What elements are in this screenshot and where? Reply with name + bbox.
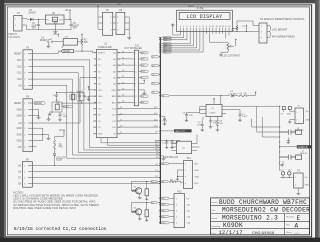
wire P6 pin4 D2 to U1 xyxy=(32,78,96,124)
svg-text:LCD DISPLAY: LCD DISPLAY xyxy=(187,14,223,20)
+5V at U1 VCC pin xyxy=(88,86,97,90)
svg-text:D9: D9 xyxy=(162,198,164,200)
wires P3 pin1 to RESET net xyxy=(32,51,61,53)
svg-text:ROUTROL SEE USER GUIDE FOR DET: ROUTROL SEE USER GUIDE FOR DETAIL INFO xyxy=(13,206,76,210)
svg-text:D13: D13 xyxy=(162,222,165,224)
svg-text:1N4007: 1N4007 xyxy=(28,13,37,15)
capacitor C11 xyxy=(197,117,204,132)
title block xyxy=(211,198,310,235)
wire bus fan P3 to lower data bus xyxy=(32,60,160,159)
+5V at P12 pin6 xyxy=(139,79,146,83)
diode D1 xyxy=(27,10,37,21)
svg-text:BLUE: BLUE xyxy=(56,160,62,162)
LED D5 at Q2 xyxy=(145,202,149,221)
wire bus to P10 pin1 xyxy=(159,162,183,165)
title block row source xyxy=(211,199,307,206)
svg-text:GND: GND xyxy=(17,134,22,136)
wires audio bus to tone decoder xyxy=(252,106,280,137)
svg-text:.47UF: .47UF xyxy=(197,124,203,126)
svg-text:DB7: DB7 xyxy=(141,52,144,54)
capacitor C5 xyxy=(70,19,80,29)
ground near P6 row xyxy=(46,116,51,121)
svg-text:RESET: RESET xyxy=(63,51,71,53)
ground P6 pins 5,6,7 xyxy=(32,128,50,140)
svg-text:25V: 25V xyxy=(32,28,37,30)
LCD data fan wires to bus xyxy=(159,34,203,53)
svg-text:4 LINE: 4 LINE xyxy=(197,8,204,10)
LCD pin stubs xyxy=(180,26,232,34)
resistor R8 backlight xyxy=(231,25,238,33)
title block row board xyxy=(211,215,300,222)
svg-text:+5V: +5V xyxy=(59,130,64,132)
wires P9 pins to data bus xyxy=(32,164,160,184)
svg-text:25V: 25V xyxy=(73,28,78,30)
svg-text:Drawn By:: Drawn By: xyxy=(211,226,221,228)
svg-text:D3: D3 xyxy=(152,92,154,94)
svg-text:LINE OUT: LINE OUT xyxy=(175,131,186,133)
svg-text:D7: D7 xyxy=(162,181,164,183)
test point square GND xyxy=(287,107,295,116)
svg-text:D4: D4 xyxy=(152,83,154,85)
svg-text:ATMEGA 328: ATMEGA 328 xyxy=(98,46,112,49)
+5V arrow feeding R5 xyxy=(32,129,65,146)
main vertical bus wire xyxy=(159,37,161,224)
ground at P12 pin7 xyxy=(139,90,147,95)
ground J1 xyxy=(287,141,291,144)
ground rail under regulator xyxy=(39,24,72,33)
svg-text:GND: GND xyxy=(17,141,22,143)
ground at U1 GND pin xyxy=(87,96,97,101)
test point square 5V xyxy=(281,107,286,116)
net flag RESET at P6 xyxy=(32,102,45,106)
svg-text:D5: D5 xyxy=(152,74,154,76)
svg-text:Board:: Board: xyxy=(211,218,217,220)
net flags P12 pins 8,9 xyxy=(139,95,149,104)
capacitor C15 xyxy=(170,141,178,149)
svg-text:D5: D5 xyxy=(152,202,154,204)
svg-text:DB6: DB6 xyxy=(164,39,167,41)
wire bus to Q1 xyxy=(131,180,160,190)
LED D4 at Q1 xyxy=(145,181,149,200)
ground J2 xyxy=(280,162,284,166)
svg-text:Revision: Revision xyxy=(286,217,294,219)
connector P5 xyxy=(98,9,113,35)
jumper bracket MAX BRIGHTNESS xyxy=(270,32,295,39)
resistor R6 xyxy=(237,91,256,97)
wire across bus at U3 top xyxy=(155,140,180,141)
svg-text:D11: D11 xyxy=(162,210,165,212)
wire U2 out to audio bus xyxy=(226,105,280,107)
LCD contrast pot R3 xyxy=(210,34,241,58)
svg-text:D10: D10 xyxy=(162,216,165,218)
title block row date xyxy=(211,230,300,236)
svg-text:D6: D6 xyxy=(162,95,164,97)
svg-text:DSP1: DSP1 xyxy=(188,6,195,8)
svg-text:Source:: Source: xyxy=(211,202,218,204)
net flag AUDIO IN (filled) xyxy=(279,145,311,149)
ground P6 pins 2,3 xyxy=(32,109,40,119)
notes text block xyxy=(13,190,99,210)
test point TP1 xyxy=(280,170,285,178)
capacitor C1 xyxy=(77,93,83,102)
transistor Q2 xyxy=(131,207,141,220)
capacitor C6 xyxy=(53,92,59,102)
svg-text:E: E xyxy=(297,215,301,222)
wires U1 bottom to data bus xyxy=(95,138,160,146)
svg-text:+5V: +5V xyxy=(65,10,70,12)
ground P10 pins 2,3 xyxy=(176,170,184,181)
svg-text:D12: D12 xyxy=(162,204,165,206)
svg-text:KG9DK: KG9DK xyxy=(223,222,243,229)
+5V pullup arrow near S1 xyxy=(53,33,59,37)
capacitor C13 reset jumper block xyxy=(53,37,78,46)
net flag RESET (from S1) xyxy=(61,45,96,53)
svg-text:.1UF: .1UF xyxy=(62,116,67,118)
LCD backlight wires to P4 xyxy=(232,21,259,32)
svg-text:RESET: RESET xyxy=(98,53,105,55)
connector P12 NOT INSTALLED xyxy=(117,45,142,105)
svg-text:GND: GND xyxy=(17,109,22,111)
svg-text:DB5: DB5 xyxy=(141,65,144,67)
svg-text:A: A xyxy=(295,222,299,229)
svg-text:PWR IN: PWR IN xyxy=(9,34,17,36)
capacitor C10 under U2 xyxy=(209,117,218,129)
wire bus to Q2 xyxy=(131,201,160,211)
svg-text:DB6: DB6 xyxy=(141,59,144,61)
svg-text:22PF: 22PF xyxy=(85,96,91,98)
svg-text:+5V: +5V xyxy=(53,34,58,36)
svg-text:P4 DISPLAY BRIGHTNESS CONTROL: P4 DISPLAY BRIGHTNESS CONTROL xyxy=(260,17,305,21)
capacitor C7 xyxy=(58,112,67,121)
wire P1 pin2 down to rail xyxy=(27,25,39,30)
ground stub on bus xyxy=(160,156,166,161)
connector P13 xyxy=(174,191,191,227)
audio junction bus xyxy=(279,106,280,171)
svg-text:GND: GND xyxy=(98,133,103,135)
svg-text:NOT INSTALLED: NOT INSTALLED xyxy=(125,47,143,50)
svg-text:LCD BRIGHT: LCD BRIGHT xyxy=(272,27,288,31)
connector P9 xyxy=(18,159,32,187)
svg-text:SPK: SPK xyxy=(194,183,199,185)
voltage regulator U4 7805 xyxy=(46,13,65,25)
svg-text:+5V: +5V xyxy=(117,4,122,6)
connector P10 xyxy=(184,158,200,188)
wires crystal to U1 XTAL pins xyxy=(56,92,97,104)
svg-text:MORSEDUINO2 CW DECODER: MORSEDUINO2 CW DECODER xyxy=(222,207,310,214)
svg-text:LM567: LM567 xyxy=(210,113,217,115)
connector P7 xyxy=(295,105,311,123)
svg-text:TAPE IN: TAPE IN xyxy=(300,152,308,155)
jack J1 audio in xyxy=(280,128,304,141)
svg-text:10K: 10K xyxy=(84,42,89,44)
svg-text:Sheet:: Sheet: xyxy=(286,231,292,234)
IC U2 LM567 xyxy=(200,98,226,117)
svg-text:D8: D8 xyxy=(162,163,164,165)
ground at P7 pin2 xyxy=(288,120,295,124)
svg-text:GND: GND xyxy=(287,113,292,115)
title block row drawn by xyxy=(211,222,298,229)
LED D3 xyxy=(229,91,238,97)
connector P8 xyxy=(113,10,130,36)
IC U3 MCP4131 xyxy=(164,135,200,159)
svg-text:GND: GND xyxy=(194,176,199,178)
svg-text:GND: GND xyxy=(111,90,116,92)
svg-text:LCD CONTRAST: LCD CONTRAST xyxy=(223,55,241,58)
ground on pin3 row with C7 xyxy=(31,116,33,118)
capacitor C8 xyxy=(183,106,207,121)
net flag SPKR xyxy=(62,103,73,108)
+5V arrow backlight xyxy=(241,25,247,32)
diode D2 reset loop xyxy=(48,100,62,115)
wires bus to P13 xyxy=(159,197,174,224)
wire U4 out to +5V xyxy=(64,18,71,20)
svg-text:MORSEDUINO 2.3: MORSEDUINO 2.3 xyxy=(222,215,278,222)
svg-text:GND: GND xyxy=(17,116,22,118)
svg-text:AUDIO IN: AUDIO IN xyxy=(298,146,309,149)
svg-text:RW: RW xyxy=(141,102,144,104)
resistor R4 xyxy=(216,117,224,132)
tiny net labels at bus fan ends xyxy=(155,141,160,158)
net flag LINE OUT xyxy=(159,129,191,133)
connector P2 xyxy=(294,171,310,188)
svg-text:GND: GND xyxy=(306,119,311,121)
svg-text:RESET: RESET xyxy=(14,103,22,105)
svg-text:1 of 1: 1 of 1 xyxy=(294,233,300,235)
svg-text:CHG 8/19/18: CHG 8/19/18 xyxy=(252,231,274,235)
connector P1 power input xyxy=(8,13,28,39)
svg-text:VCC: VCC xyxy=(98,90,103,92)
ground under P2 xyxy=(297,188,301,195)
capacitor C4 xyxy=(31,19,40,30)
svg-text:2.2UF: 2.2UF xyxy=(242,116,248,118)
LED D6 status xyxy=(53,149,66,166)
title block row title xyxy=(211,207,310,214)
transistor Q1 xyxy=(131,186,141,199)
svg-text:RESET: RESET xyxy=(14,54,22,56)
svg-text:DB4: DB4 xyxy=(141,71,144,73)
net flags right of P12 xyxy=(139,52,149,80)
svg-text:GND: GND xyxy=(194,170,199,172)
test point TP2 xyxy=(288,170,293,178)
svg-text:Date:: Date: xyxy=(211,232,216,235)
svg-text:8/19/18 corrected C1,C2 connec: 8/19/18 corrected C1,C2 connection xyxy=(14,226,107,232)
svg-text:.1UF: .1UF xyxy=(188,115,193,117)
resistor R7 to P10 pin4 xyxy=(159,179,183,183)
capacitor C2 xyxy=(82,93,91,98)
wire test points to P2 xyxy=(280,177,293,179)
svg-text:12/1/17: 12/1/17 xyxy=(219,230,243,236)
LCD display DSP1 xyxy=(177,6,233,32)
wire P1 to U4 regulator xyxy=(35,18,45,20)
svg-text:D4: D4 xyxy=(152,181,154,183)
svg-text:LED RED: LED RED xyxy=(229,93,238,95)
svg-text:KEY: KEY xyxy=(194,164,199,166)
net flags left of bus upper xyxy=(152,56,161,95)
jack J2 tape in xyxy=(280,151,308,162)
svg-text:GND: GND xyxy=(98,96,103,98)
svg-text:AVC: AVC xyxy=(112,101,117,104)
resistor R1 xyxy=(77,33,88,48)
connector P6 xyxy=(14,97,32,152)
resistor R5 xyxy=(53,139,63,150)
ground left of LCD xyxy=(171,23,181,35)
net labels on LCD fan xyxy=(164,36,172,53)
wire D6 row to LED D3 xyxy=(159,95,230,105)
connector P3 xyxy=(14,48,32,90)
+5V supply arrow xyxy=(65,9,71,20)
svg-text:Title:: Title: xyxy=(211,209,216,212)
capacitor C3 xyxy=(226,110,248,122)
svg-text:D7: D7 xyxy=(152,56,154,58)
connector P4 display brightness control xyxy=(259,17,305,43)
svg-text:SPKR: SPKR xyxy=(64,106,70,108)
svg-text:7-12 VOLTS: 7-12 VOLTS xyxy=(8,37,21,39)
svg-text:MCP4131-103: MCP4131-103 xyxy=(164,157,179,159)
svg-text:MAX BRIGHTNESS: MAX BRIGHTNESS xyxy=(272,34,295,38)
svg-text:RESET: RESET xyxy=(35,103,43,105)
svg-text:RESET: RESET xyxy=(40,40,48,42)
capacitor C9 xyxy=(159,116,167,126)
ground under P8 xyxy=(127,36,131,39)
switch S1 reset xyxy=(40,38,53,45)
ground under S1 xyxy=(46,45,50,48)
svg-text:BUDD CHURCHWARD WB7FHC: BUDD CHURCHWARD WB7FHC xyxy=(219,199,307,206)
svg-text:+5V: +5V xyxy=(17,147,22,149)
+5V arrow above P5 xyxy=(97,4,121,9)
IC U1 ATMEGA 328 xyxy=(93,43,121,137)
svg-text:GND: GND xyxy=(305,184,310,186)
capacitor C14 xyxy=(162,141,168,149)
wires U1 right lower pins to net labels xyxy=(117,107,160,134)
jumper bracket LCD BRIGHT xyxy=(270,26,288,32)
svg-text:GND: GND xyxy=(17,128,22,130)
crystal X1 xyxy=(70,91,84,100)
svg-text:D6: D6 xyxy=(152,65,154,67)
